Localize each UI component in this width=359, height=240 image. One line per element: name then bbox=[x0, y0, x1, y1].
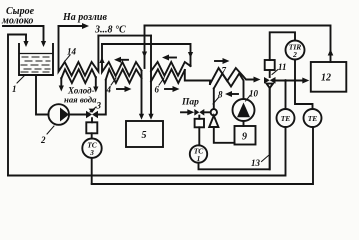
svg-text:ТЕ: ТЕ bbox=[308, 114, 318, 123]
wire TC3 down to buses bbox=[91, 158, 93, 184]
wire L1: pasteurized return line from box 12 bbox=[145, 26, 331, 63]
wire cold water outlet left (down arrow) bbox=[60, 78, 62, 87]
wire HX7 left end down to injector bbox=[213, 89, 215, 110]
svg-text:молоко: молоко bbox=[1, 16, 33, 27]
leader line label 8 bbox=[213, 98, 219, 105]
svg-text:14: 14 bbox=[67, 47, 77, 57]
wire raw milk inlet bbox=[3, 26, 44, 42]
wire TE2 elbow from pipe bbox=[295, 81, 313, 110]
heat-exchanger section 14 (cooler), ribbon upper line bbox=[59, 26, 99, 76]
svg-text:На розлив: На розлив bbox=[62, 12, 107, 23]
heat-exchanger section 4 (regenerator I), upper line bbox=[102, 44, 142, 76]
valve V3 (three-way) bbox=[86, 111, 92, 118]
svg-text:12: 12 bbox=[321, 73, 331, 84]
steam inlet arrow bbox=[181, 111, 189, 113]
svg-text:ная вода: ная вода bbox=[64, 95, 97, 105]
wire actuator 8 to TC1 bbox=[198, 127, 200, 145]
svg-text:5: 5 bbox=[142, 130, 147, 141]
actuator square of valve 3 bbox=[91, 118, 93, 122]
flow arrow right above HX7 bbox=[215, 60, 224, 62]
flow arrow left above HX4 bbox=[119, 59, 128, 61]
leader line label 14 bbox=[65, 55, 70, 61]
leader line label 1 bbox=[17, 76, 24, 83]
wire return line to tank (from bottom bus) bbox=[8, 35, 26, 176]
wire TC1 to return line LA bbox=[199, 88, 270, 169]
leader line label 10 bbox=[246, 96, 251, 102]
valve V11 (diverter) bbox=[264, 77, 270, 84]
leader line label 2 bbox=[47, 126, 54, 134]
wire T3: HX4 top-left along to HX6 right end bbox=[102, 44, 191, 66]
svg-text:Пар: Пар bbox=[181, 98, 199, 108]
wire bus LC (TC3 to TE2) bbox=[92, 127, 313, 184]
flow arrow up on HX4 left stub bbox=[99, 57, 104, 63]
node tank outlet wire bbox=[36, 75, 48, 115]
flow arrow right below HX6 bbox=[165, 88, 174, 90]
wire TE1 top stem bbox=[285, 81, 287, 110]
sensor TE1 bbox=[277, 109, 295, 127]
wire valve 3 to riser into HX4 bbox=[98, 80, 106, 115]
svg-text:6: 6 bbox=[155, 85, 160, 95]
pump 2 bbox=[48, 104, 69, 125]
svg-text:9: 9 bbox=[242, 132, 247, 143]
sensor TC1 bbox=[190, 145, 207, 162]
actuator square of valve 8 bbox=[198, 116, 200, 119]
svg-text:7: 7 bbox=[222, 66, 227, 76]
injector cone bbox=[209, 116, 218, 128]
valve V8 (steam) bbox=[194, 109, 199, 116]
actuator square of valve 11 bbox=[269, 70, 271, 77]
wire valve 8 to injector bbox=[204, 111, 210, 113]
heat-exchanger section 6 (regenerator II), upper line bbox=[151, 62, 191, 76]
heat-exchanger section 14 ribbon lower line bbox=[61, 69, 96, 83]
heat-exchanger section 6 lower line bbox=[151, 69, 185, 83]
wire T2: HX14 top-right to gap drop bbox=[98, 35, 151, 37]
svg-text:1: 1 bbox=[197, 154, 201, 163]
svg-text:3: 3 bbox=[89, 148, 94, 157]
wire actuator to TC3 bbox=[91, 133, 93, 138]
leader line label 6 bbox=[159, 78, 164, 85]
leader line label 4 bbox=[111, 78, 116, 85]
wire actuator 11 to TIR2 bbox=[270, 32, 295, 60]
wire bus LB (to tank return / TE1) bbox=[8, 127, 286, 176]
flow arrow right below HX4 bbox=[117, 88, 126, 90]
box 12 (holder) bbox=[311, 62, 347, 92]
box 5 (control) bbox=[126, 121, 163, 147]
wire TIR2 down to milk pipe bbox=[294, 60, 296, 81]
flow arrow left below HX7 bbox=[230, 93, 238, 95]
svg-text:ТЕ: ТЕ bbox=[281, 114, 291, 123]
svg-text:3...8 °С: 3...8 °С bbox=[94, 25, 126, 36]
wire HX6 lower right end to HX7 bbox=[185, 70, 210, 84]
wire injector to box 9 bbox=[214, 127, 235, 143]
flow arrow into valve 11 bbox=[254, 77, 261, 83]
leader line label 11 bbox=[272, 70, 278, 75]
svg-text:1: 1 bbox=[12, 84, 17, 94]
wire cold water inlet right (down arrow) bbox=[95, 77, 97, 88]
injector junction circle bbox=[211, 109, 217, 115]
wire HX4 band end down into box 5 (left arrow) bbox=[141, 71, 143, 116]
sensor TC3 bbox=[82, 139, 101, 158]
wire pump to valve 3 bbox=[69, 114, 86, 116]
svg-text:4: 4 bbox=[106, 85, 112, 95]
wire valve 11 down (return line 13) bbox=[269, 88, 271, 169]
heat-exchanger section 7 (pasteurizer), upper line bbox=[210, 68, 253, 84]
flow arrow left above HX6 bbox=[167, 57, 176, 59]
leader line label 3 bbox=[90, 107, 96, 112]
node junction dots bbox=[284, 79, 287, 82]
wire outlet "На розлив" bbox=[59, 25, 85, 27]
svg-text:13: 13 bbox=[251, 158, 261, 168]
svg-text:11: 11 bbox=[278, 62, 287, 72]
pump 10 (hot water) bbox=[233, 99, 255, 121]
heat-exchanger section 7 lower line bbox=[214, 74, 244, 100]
controller TIR2 bbox=[286, 41, 305, 60]
sensor TE2 bbox=[304, 109, 322, 127]
wire gap drop into box 5 (right arrow) bbox=[150, 36, 152, 116]
wire pump 10 to box 9 bbox=[243, 121, 245, 126]
flow arrow up on riser to L1 bbox=[328, 49, 334, 56]
svg-text:3: 3 bbox=[96, 101, 102, 111]
svg-text:2: 2 bbox=[292, 50, 297, 59]
svg-text:2: 2 bbox=[40, 135, 46, 145]
box 9 (boiler) bbox=[235, 126, 256, 145]
tank 1 bbox=[19, 44, 53, 75]
wire valve 11 to box 12 bbox=[276, 80, 303, 82]
heat-exchanger section 4 lower line bbox=[106, 69, 142, 83]
svg-text:8: 8 bbox=[218, 90, 223, 100]
svg-text:10: 10 bbox=[249, 89, 259, 99]
leader line label 13 bbox=[262, 156, 269, 162]
